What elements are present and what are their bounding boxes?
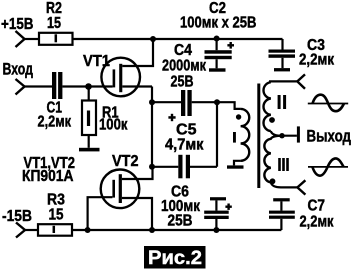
node bus C5 left dot [149, 164, 155, 170]
transformer winding II [264, 82, 271, 131]
terminal output bottom fork [297, 180, 305, 194]
svg-text:+15В: +15В [1, 16, 34, 33]
sine wave symbol top [308, 103, 348, 105]
wire right bus C4 to C5 [216, 102, 218, 167]
transformer core [257, 84, 260, 189]
svg-text:4,7мк: 4,7мк [165, 137, 204, 154]
plus sign C4 [168, 114, 175, 121]
svg-text:15: 15 [49, 207, 64, 224]
wire bus VT1 to VT2 [151, 87, 153, 168]
wire C5 branch right [190, 166, 217, 168]
wire center tap to terminal [271, 131, 297, 136]
terminal Вход input fork [16, 79, 25, 95]
transformer T1 winding I [241, 109, 250, 161]
wire VT2 gate to rail [88, 197, 113, 230]
wire VT2 source to rail [122, 198, 152, 230]
svg-text:Рис.2: Рис.2 [148, 248, 202, 269]
capacitor C6 [210, 197, 226, 200]
node rail C2 dot [214, 36, 220, 42]
resistor R1 [88, 87, 90, 101]
terminal output top fork [297, 74, 305, 88]
sine wave symbol bottom [308, 166, 348, 168]
wire VT1 source to bus [122, 85, 152, 87]
svg-text:15: 15 [47, 15, 61, 32]
svg-text:100к: 100к [99, 117, 128, 134]
svg-text:Выход: Выход [307, 127, 351, 146]
node C4 right dot [214, 99, 220, 105]
capacitor C1 [52, 72, 62, 99]
svg-text:-15В: -15В [2, 208, 32, 225]
capacitor C7 [273, 198, 290, 201]
wire C5 branch left [152, 166, 178, 168]
label winding I [233, 132, 236, 143]
wire -15V fork to R3 [25, 229, 38, 231]
svg-text:25В: 25В [168, 213, 193, 230]
capacitor C2 [216, 39, 218, 50]
wire VT2 drain riser [122, 167, 153, 179]
wire transformer primary bottom lead [234, 161, 241, 166]
svg-text:2,2мк: 2,2мк [299, 52, 335, 69]
capacitor C5 [178, 155, 190, 179]
node center tap dot [279, 133, 284, 138]
wire C4 branch right [192, 101, 217, 103]
label figure Ris.2 [144, 246, 206, 269]
label winding II [278, 95, 287, 109]
svg-text:VT1: VT1 [83, 53, 110, 70]
node rail VT1 drain dot [150, 36, 156, 42]
svg-text:25В: 25В [171, 74, 194, 91]
transistor VT1 [101, 58, 140, 97]
node winding III polarity dot [270, 178, 276, 184]
svg-text:C4: C4 [174, 42, 192, 59]
node input junction dot [85, 83, 92, 90]
wire winding II top lead [269, 80, 297, 82]
wire C4 branch left [152, 101, 181, 103]
wire transformer primary top lead [217, 102, 241, 109]
wire VT1 drain riser [122, 39, 153, 66]
terminal +15V input fork [16, 31, 25, 47]
wire winding III bottom lead [271, 182, 298, 187]
svg-text:VT2: VT2 [112, 153, 139, 170]
wire C1 to VT1 gate [62, 85, 112, 87]
node winding I polarity dot [236, 114, 241, 119]
wire Вход fork to C1 [25, 85, 53, 87]
wire +15V fork to R2 [25, 38, 40, 40]
label winding III [278, 158, 289, 171]
svg-text:2000мк: 2000мк [162, 58, 207, 75]
wire top rail R2 to C3 corner [73, 38, 283, 40]
svg-text:2,2мк: 2,2мк [300, 214, 335, 231]
resistor R2 [39, 33, 73, 45]
wire bottom rail R3 to C7 [72, 229, 281, 231]
node winding II polarity dot [269, 117, 275, 123]
terminal output middle bar [297, 126, 300, 142]
capacitor C3 [281, 39, 283, 50]
transformer winding III [264, 136, 282, 183]
svg-text:КП901А: КП901А [22, 168, 74, 185]
svg-text:C7: C7 [308, 198, 326, 215]
node bus C4 left dot [149, 99, 155, 105]
node rail C6 dot [213, 227, 219, 233]
node rail VT2 gate dot [85, 227, 91, 233]
svg-text:2,2мк: 2,2мк [38, 114, 72, 131]
svg-text:100мк х 25В: 100мк х 25В [180, 15, 257, 32]
transistor VT2 [101, 170, 140, 209]
resistor R3 [38, 224, 72, 236]
svg-text:Вход: Вход [3, 60, 34, 79]
node rail VT2 source dot [149, 227, 155, 233]
capacitor C4 [181, 90, 192, 116]
terminal -15V input fork [16, 223, 25, 238]
